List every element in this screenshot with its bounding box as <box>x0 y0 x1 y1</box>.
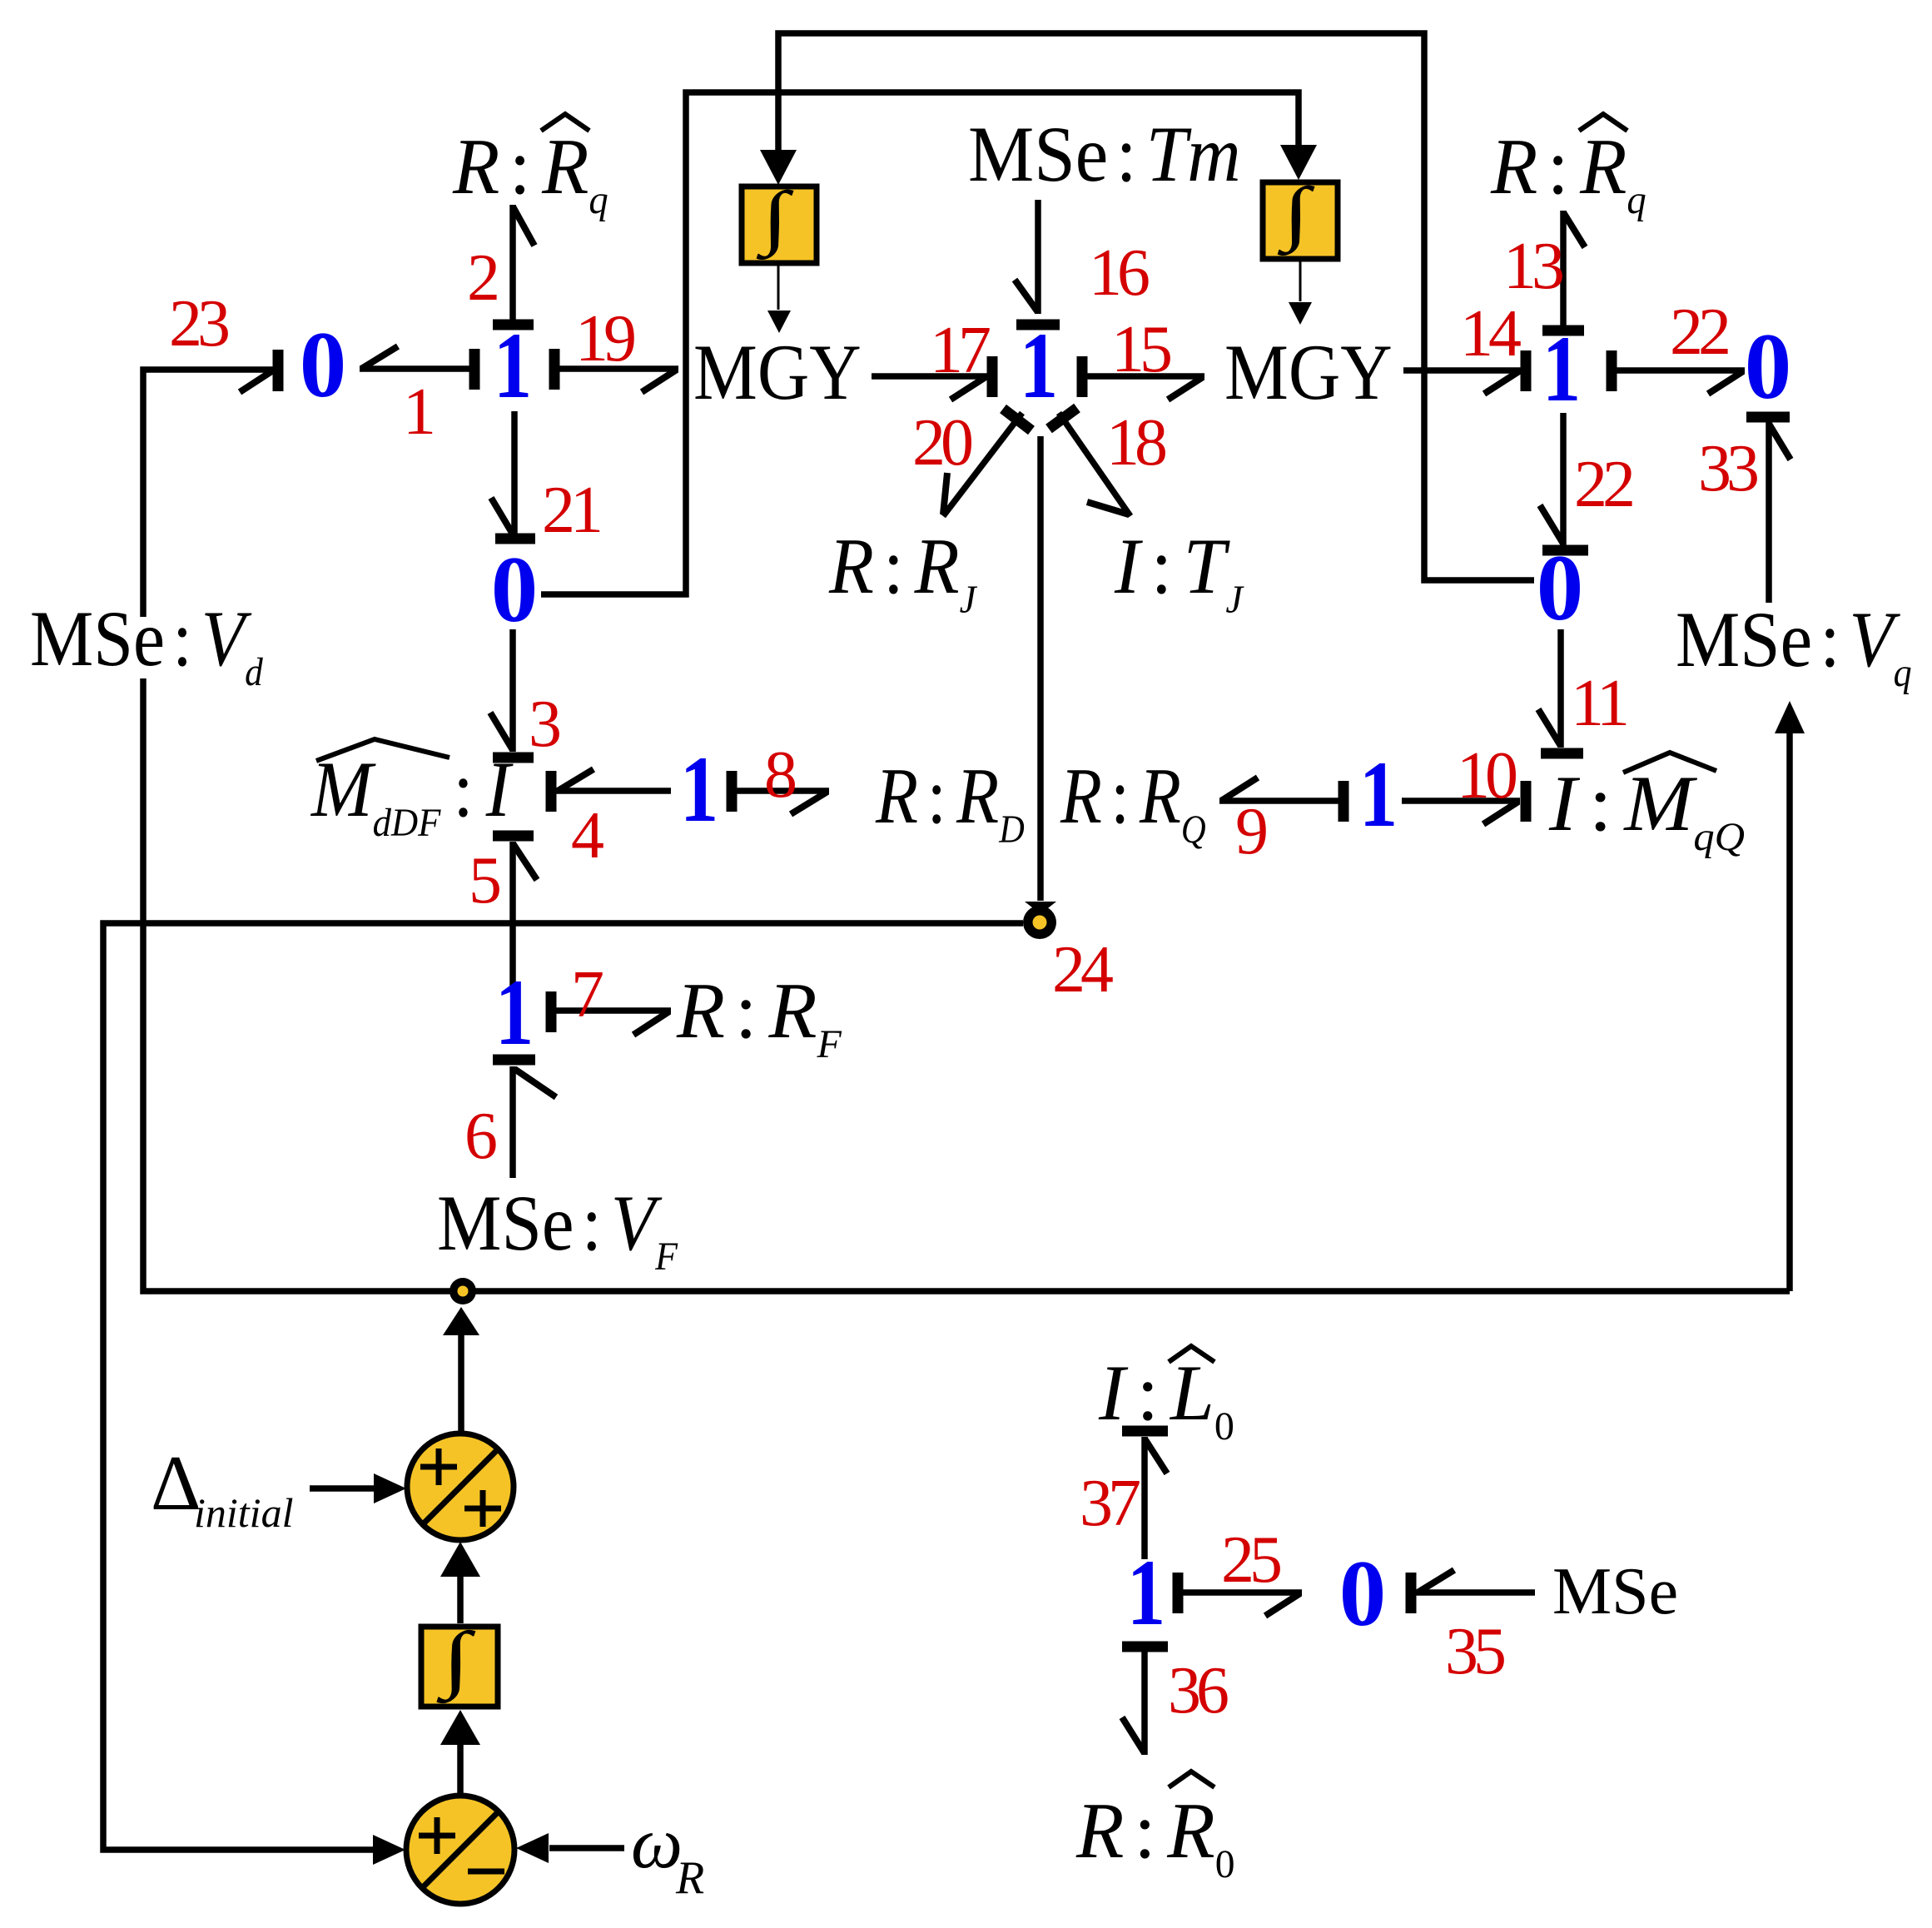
svg-text:19: 19 <box>575 302 634 375</box>
bond 8 <box>732 771 829 814</box>
bond 18 <box>1049 408 1130 516</box>
bond 37 <box>1122 1431 1168 1559</box>
integrator box left <box>742 177 817 263</box>
svg-text:35: 35 <box>1445 1615 1504 1688</box>
node delta <box>449 1278 476 1304</box>
svg-text:1: 1 <box>1127 1541 1165 1645</box>
wire top B <box>541 92 1317 594</box>
arrow integrator to sum <box>440 1542 480 1623</box>
bond 5 <box>493 836 537 987</box>
bond 22 right vertical <box>1540 413 1588 550</box>
svg-text:∫: ∫ <box>1277 173 1315 256</box>
bond 25 <box>1178 1573 1302 1616</box>
svg-text:R:Rq: R:Rq <box>1490 124 1646 222</box>
svg-text:∫: ∫ <box>756 177 794 260</box>
svg-text:24: 24 <box>1052 933 1113 1006</box>
element I:MqQ <box>1548 753 1745 859</box>
integrator box right <box>1263 173 1338 259</box>
svg-text:0: 0 <box>1537 536 1584 640</box>
wire long left <box>103 923 1023 1850</box>
bond 21 <box>491 411 535 539</box>
summing junction top <box>407 1434 514 1540</box>
svg-text:0: 0 <box>491 538 539 642</box>
svg-text:37: 37 <box>1080 1467 1140 1540</box>
svg-text:36: 36 <box>1168 1654 1228 1727</box>
svg-text:25: 25 <box>1221 1523 1280 1597</box>
svg-text:MSe:VF: MSe:VF <box>437 1180 678 1279</box>
element MdDF:I <box>310 739 514 845</box>
junction 1 q <box>1359 743 1398 847</box>
bond 14 <box>1403 350 1526 394</box>
svg-text:7: 7 <box>571 958 603 1031</box>
element R:RJ <box>828 522 978 622</box>
svg-text:16: 16 <box>1089 236 1149 310</box>
bond 9 <box>1219 778 1343 822</box>
bond 11 <box>1538 629 1583 753</box>
svg-text:0: 0 <box>300 313 347 417</box>
source MSe:Vq <box>1676 595 1912 694</box>
label Delta initial <box>151 1440 293 1536</box>
MGY left <box>693 328 862 416</box>
node 24 <box>1023 906 1056 939</box>
svg-text:5: 5 <box>469 844 499 917</box>
svg-text:MGY: MGY <box>693 328 862 416</box>
bond 17 <box>872 356 992 400</box>
element R:RF <box>676 966 842 1066</box>
svg-text:14: 14 <box>1460 297 1521 370</box>
junction 1 a <box>494 314 532 418</box>
label R:Rq right <box>1490 114 1646 222</box>
svg-text:21: 21 <box>542 474 600 547</box>
svg-text:initial: initial <box>194 1489 293 1536</box>
bond 23 <box>143 350 278 617</box>
svg-text:MGY: MGY <box>1224 328 1393 416</box>
bond 36 <box>1122 1647 1168 1755</box>
svg-text:MSe:Vq: MSe:Vq <box>1676 595 1912 694</box>
svg-text:∫: ∫ <box>436 1617 476 1704</box>
element R:RQ <box>1060 753 1206 851</box>
svg-text:3: 3 <box>529 688 559 761</box>
label omega R <box>631 1803 704 1904</box>
arrow left wire into bottom sum <box>373 1835 405 1865</box>
arrow sum to node <box>443 1307 479 1434</box>
bond 35 <box>1411 1570 1535 1613</box>
bond 2 <box>493 205 534 325</box>
svg-text:R:RJ: R:RJ <box>828 522 978 622</box>
svg-text:33: 33 <box>1698 432 1757 505</box>
svg-text:4: 4 <box>571 799 603 872</box>
svg-text:6: 6 <box>464 1100 496 1173</box>
svg-text:23: 23 <box>169 287 228 360</box>
modulation wire delta <box>143 678 1790 1291</box>
source MSe:VF <box>437 1180 678 1279</box>
element R:R0 <box>1075 1771 1235 1886</box>
source MSe:Vd <box>30 594 263 694</box>
svg-text:1: 1 <box>1359 743 1398 847</box>
bond 1 <box>360 346 474 390</box>
junction 1 z <box>1127 1541 1165 1645</box>
svg-text:11: 11 <box>1571 667 1627 740</box>
integrator box angle <box>421 1617 498 1707</box>
bond 6 <box>493 1060 556 1178</box>
svg-text:8: 8 <box>764 738 795 812</box>
junction 1 r <box>1542 317 1581 421</box>
bond 4 <box>551 769 671 812</box>
svg-text:0: 0 <box>1339 1542 1387 1646</box>
element I:L0 <box>1098 1346 1234 1448</box>
svg-text:R:Rq: R:Rq <box>452 124 608 222</box>
bond 19 <box>554 349 678 392</box>
junction 1 d <box>680 738 718 842</box>
svg-text:ω: ω <box>631 1803 683 1884</box>
element R:RD <box>875 753 1025 851</box>
label R:Rq left <box>452 114 608 222</box>
bond 13 <box>1542 211 1585 330</box>
bond 3 <box>490 629 534 758</box>
bond 15 <box>1082 356 1204 400</box>
arrow box left to MGY <box>767 265 791 333</box>
bond 33 <box>1746 417 1790 603</box>
svg-text:2: 2 <box>467 241 497 315</box>
junction 1 c <box>1020 314 1058 418</box>
summing junction bottom <box>406 1796 514 1904</box>
MGY right <box>1224 328 1393 416</box>
svg-text:22: 22 <box>1574 448 1632 521</box>
svg-text:MSe: MSe <box>1552 1555 1678 1628</box>
bond 7 <box>551 991 671 1035</box>
svg-text:17: 17 <box>930 314 990 387</box>
bond 16 <box>1015 200 1060 325</box>
svg-text:22: 22 <box>1670 296 1728 369</box>
svg-text:15: 15 <box>1111 313 1170 386</box>
svg-text:9: 9 <box>1235 795 1266 868</box>
bond 24 <box>1025 436 1056 914</box>
svg-text:18: 18 <box>1106 406 1165 480</box>
svg-text:1: 1 <box>494 314 532 418</box>
svg-text:MSe:Tm: MSe:Tm <box>968 110 1241 197</box>
svg-text:0: 0 <box>1745 315 1792 419</box>
bond 10 <box>1402 781 1526 824</box>
svg-text:1: 1 <box>403 375 433 449</box>
bond 20 <box>943 409 1031 516</box>
arrow delta to sum <box>310 1473 406 1503</box>
arrow omega into bottom sum <box>516 1833 624 1863</box>
source MSe:Tm <box>968 110 1241 197</box>
arrow box right to MGY <box>1289 260 1312 325</box>
arrow lower sum to integrator <box>440 1710 480 1795</box>
bond 22 top <box>1612 350 1745 394</box>
svg-text:MSe:Vd: MSe:Vd <box>30 594 263 694</box>
svg-text:1: 1 <box>680 738 718 842</box>
svg-text:R: R <box>675 1852 704 1904</box>
arrow to MSe:Vq <box>1775 701 1805 1291</box>
svg-text:10: 10 <box>1457 739 1516 812</box>
junction 1 F <box>495 961 534 1065</box>
svg-text:13: 13 <box>1503 230 1562 303</box>
svg-text:R:R0: R:R0 <box>1075 1788 1235 1886</box>
element I:TJ <box>1114 523 1244 622</box>
svg-text:1: 1 <box>1020 314 1058 418</box>
wire top A <box>760 33 1534 580</box>
svg-text:1: 1 <box>495 961 534 1065</box>
svg-text:20: 20 <box>912 406 971 480</box>
